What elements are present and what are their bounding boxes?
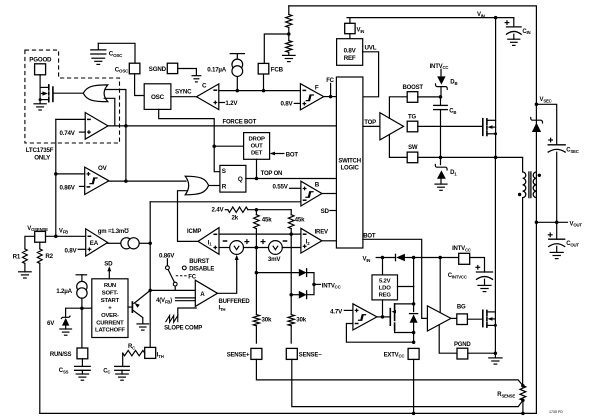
transistor Q1 collector [133,311,142,324]
svg-text:VIN​: VIN​ [357,28,365,34]
wire R2 stem [39,242,41,249]
minus input ICMP [213,233,217,235]
svg-text:6V: 6V [47,320,55,327]
junction comp output [381,315,385,319]
svg-text:UVL: UVL [365,45,377,52]
node VFB [54,235,58,239]
svg-text:REF: REF [344,55,356,62]
polarity minus Vsrc2 [283,240,288,242]
svg-text:SW: SW [408,145,418,151]
svg-text:B: B [315,181,320,188]
wire clamp diode 2b [307,284,314,294]
svg-text:EA: EA [90,240,99,247]
transistor pass PMOS gate bar [389,309,391,326]
wire 0.8V F stub [294,102,300,104]
wire VIN top rail to VSEC [289,6,537,222]
wire INTVCC stub [314,283,321,285]
wire COUT stem [556,222,558,239]
wire top MOSFET source [487,133,496,135]
wire zener branch [66,308,82,317]
wire F output [324,96,337,98]
wire OV output [109,180,186,182]
svg-text:TOP: TOP [364,120,376,126]
diode PMOS body [409,314,418,323]
wire sense minus line [219,233,301,235]
svg-text:OVER-: OVER- [101,313,119,319]
op-amp C (sync comparator) [197,84,219,110]
wire CINTVCC to ground [484,279,486,285]
wire 0.74V stub [80,131,86,133]
wire A input 1 [176,297,196,299]
svg-text:CC​: CC​ [103,368,110,374]
wire VIN rail 2 [347,17,514,19]
svg-text:R2: R2 [45,253,53,260]
junction 0.17uA [236,89,240,93]
wire rail to A amp [150,289,195,291]
wire OR2 bottom input from ICMP [178,191,199,242]
wire SW line [418,156,523,158]
svg-text:IREV: IREV [315,229,328,235]
switch contact 0.86V [166,266,170,270]
wire BOT [363,239,428,318]
capacitor COUT [549,239,565,246]
arrowhead BOT to dropout [270,152,275,156]
wire CIN stem [513,18,515,27]
svg-text:BOT: BOT [286,152,299,158]
svg-text:RUN: RUN [104,283,116,289]
hysteresis glyph 4.7V [358,315,366,321]
wire ITH rail [149,202,151,348]
resistor 45k 2 [288,215,294,229]
wire top MOSFET vertical [495,18,497,158]
wire VIN pin stem [349,18,351,25]
ground D1 [435,184,447,190]
op-amp ICMP comparator [198,228,219,255]
ground CSS [76,374,88,380]
pin PGND [457,348,468,359]
svg-text:0.8V: 0.8V [344,48,357,55]
svg-text:SWITCH: SWITCH [338,159,360,165]
wire zener to ground [65,326,67,329]
dashed FC link [176,275,188,277]
svg-text:0.55V: 0.55V [273,183,289,190]
capacitor CC [115,366,130,370]
node ITH mid [148,289,152,293]
node VOUT cout [555,221,559,225]
svg-text:0.8V: 0.8V [281,101,294,108]
wire bottom MOSFET source [487,324,496,326]
wire COSC cap stem [97,43,99,50]
transistor M1 gate bar [52,87,54,101]
plus CINTVCC [475,265,480,270]
wire VFB sense vertical [55,119,57,236]
source V offset 2 (3mV) [269,241,283,255]
pin SENSE+ [251,348,262,359]
junction 45k1 plus line [255,246,259,250]
plus input IREV [303,244,307,248]
wire VIN pin to REF [349,34,351,39]
svg-text:SLOPE COMP: SLOPE COMP [164,326,202,332]
wire EA out [108,242,121,244]
junction diode clamp 1 [255,271,259,275]
svg-text:LOGIC: LOGIC [341,165,360,171]
svg-text:A: A [200,291,205,298]
svg-text:45k: 45k [295,216,305,223]
latch SR [220,165,246,192]
wire SD arrow stem [108,268,110,278]
node VOUT sec [535,221,539,225]
wire A input 2 [176,300,196,302]
arrowhead buffered ITH [235,255,239,260]
minus input B [303,199,307,201]
svg-text:FORCE BOT: FORCE BOT [223,119,257,125]
op-amp IREV comparator [301,228,322,253]
wire divider to ground [288,52,290,55]
svg-text:BOT: BOT [363,233,376,239]
wire 0.55V stub [290,187,301,189]
svg-text:0.86V: 0.86V [159,253,175,260]
svg-text:VOUT​: VOUT​ [570,221,583,227]
pin EXTVCC [408,348,419,359]
wire sense+ vertical [255,248,257,315]
wire DB to node [440,88,442,97]
wire 45k1 stem [255,210,257,215]
wire PGND to ground [468,352,496,354]
svg-text:R: R [222,183,227,190]
ground SGND [192,76,201,82]
wire SENSE+ run [256,359,523,385]
svg-text:ITH​: ITH​ [157,353,164,359]
polarity minus Vsrc1 [223,240,228,242]
wire 1.2uA down [81,298,83,348]
wire SYNC [171,96,197,98]
arrowhead top MOSFET body [488,125,493,129]
wire diode to INTVCC pin [405,257,458,259]
wire SD stub [330,210,337,212]
minus input UV [87,118,91,120]
capacitor COSC (to ground) [91,50,106,54]
switch contact BURST DISABLE [182,266,186,270]
plus CSEC [548,138,553,143]
ground PGOOD mosfet [34,104,46,110]
ground zener [60,329,72,335]
wire top MOSFET body link [491,126,496,128]
plus input ICMP [213,246,217,250]
plus input 4.7V [355,309,359,313]
node VSEC [535,103,539,107]
plus CIN [505,20,510,25]
pin ITH [145,347,156,358]
wire node to CB [440,97,442,106]
svg-text:30k: 30k [296,316,306,323]
minus input IREV [303,233,307,235]
wire driver low rail to SW [389,135,407,158]
pin BG [457,314,468,325]
svg-text:OUT: OUT [251,144,263,150]
wire top MOSFET drain [487,119,496,121]
wire 0.17uA to comparator line [236,77,238,91]
resistor RC [123,350,145,355]
or-gate latch reset [185,176,208,195]
ground R1 [19,272,32,278]
switch lever [168,270,174,283]
wire SGND to ground [178,69,197,76]
pin FCB [258,63,269,74]
svg-text:3mV: 3mV [268,256,282,263]
svg-text:SYNC: SYNC [175,89,192,96]
svg-text:ITH​: ITH​ [219,306,226,312]
block RUN SOFT-START [92,279,128,338]
resistor 45k 1 [254,215,260,229]
current source 1.2uA [77,281,87,298]
wire COSC top rail [98,43,135,63]
transistor Q1 bar [131,302,133,312]
wire INTVCC to cap [470,258,485,273]
svg-text:SGND: SGND [149,66,167,73]
svg-text:OSC: OSC [151,94,165,101]
wire M1 gate to OR gate [53,92,83,94]
svg-text:CSS​: CSS​ [59,368,69,374]
transistor bottom MOSFET channel [486,311,488,328]
resistor 2k [228,207,248,212]
op-amp A (ITH buffer) [195,280,217,306]
wire LDO output [398,286,414,288]
resistor FCB divider lower [286,41,292,53]
ground CC [116,374,128,380]
arrowhead SD [107,266,111,271]
wire 45k2 bottom [290,229,292,235]
diode clamp D3 lower [299,290,307,299]
svg-text:CSEC​: CSEC​ [566,148,578,154]
plus COUT [548,232,553,237]
junction PMOS drain [412,302,416,306]
wire boost supply [389,97,407,119]
svg-text:5.2V: 5.2V [379,278,391,284]
transistor Q1 base wire [128,306,132,308]
wire COSC pin to OSC [135,74,145,96]
wire bottom MOSFET body link [491,318,496,320]
wire VOUT [536,221,567,223]
svg-text:VSEC​: VSEC​ [540,97,552,103]
wire INTVCC to DB [440,69,442,76]
ground CINTVCC [478,285,491,291]
junction PGND ground [494,351,498,355]
wire VOSENSE left [25,236,35,249]
wire R2 to output bus [39,263,41,413]
block 0.8V REF [337,39,363,66]
junction SW/CB/D1 [439,156,443,160]
wire slope comp to A [178,308,196,316]
junction RSENSE bottom [521,399,525,403]
wire 2.4V stub [225,209,228,211]
minus input F [302,89,306,91]
block DROP OUT DET [244,133,270,160]
wire primary top [522,157,524,172]
svg-text:0.86V: 0.86V [60,185,76,192]
wire dropout to TOP ON [256,159,258,178]
wire BOOST to CB node [418,96,441,98]
svg-text:DB​: DB​ [450,80,457,86]
pin PGOOD [35,64,46,75]
op-amp EA error amplifier [86,229,108,256]
block 5.2V LDO REG [372,275,398,300]
wire primary bottom to RSENSE [522,198,524,386]
source V offset 1 [230,241,244,255]
capacitor CINTVCC [477,272,493,279]
wire EA out 2 [139,242,150,244]
wire VIN to LDO [382,258,384,275]
wire UV minus input [56,118,85,120]
junction EXTVCC comp [412,340,416,344]
junction VIN LDO [381,256,385,260]
wire TOP ON [246,178,337,180]
wire RC to CC [122,353,124,366]
wire RUNSS to CSS [81,359,83,367]
wire R1 to ground [24,263,26,271]
op-amp 4.7V comparator [353,304,377,330]
svg-text:EXTVCC​: EXTVCC​ [384,352,405,358]
wire TG to gate [418,125,483,127]
svg-text:SENSE−: SENSE− [299,352,322,358]
svg-text:OV: OV [98,165,108,172]
junction PMOS source [412,331,416,335]
svg-text:SD: SD [321,208,330,215]
capacitor CSEC [548,145,565,152]
svg-text:1735 FD: 1735 FD [549,410,563,414]
svg-text:30k: 30k [262,316,272,323]
svg-text:2.4V: 2.4V [212,207,225,214]
svg-text:INTVCC​: INTVCC​ [452,246,471,252]
junction 45k2 minus line [289,232,293,236]
wire LDO bottom to comp out [382,300,384,317]
minus input OV [87,186,91,188]
junction bus RSENSE [521,412,525,416]
ground below COSC cap [92,58,105,64]
polarity plus Vsrc2 [261,239,266,244]
diode VIN to INTVCC [396,254,405,262]
wire output bus [40,222,537,413]
wire sense- vertical [290,234,292,315]
wire OR top input [105,90,126,182]
pin RUN/SS [77,348,88,359]
svg-text:CIN​: CIN​ [522,29,530,35]
wire OSC to S input [159,109,220,171]
wire D1 to ground [440,179,442,184]
wire sense plus line c [282,247,301,249]
plus input EA [88,247,92,251]
junction bus EXTVCC [412,412,416,416]
wire 30k1 to SENSE+ [255,326,257,343]
svg-text:TG: TG [408,114,416,120]
hysteresis glyph F [306,95,314,101]
svg-text:R1: R1 [13,254,21,261]
junction FC [329,95,333,99]
transistor M1 source lead [40,99,48,101]
wire 45k1 bottom [255,229,257,248]
wire ITH to B minus [150,201,301,203]
wire 0.86V stub [80,185,85,187]
phase dot primary [518,193,521,196]
wire comp minus sense [346,324,413,343]
diode secondary schottky [531,117,543,132]
svg-text:1.2µA: 1.2µA [56,288,72,295]
plus input OV [87,172,91,176]
svg-text:LATCHOFF: LATCHOFF [95,328,125,334]
wire to DROP OUT DET [214,145,243,147]
resistor 30k 2 [288,315,294,326]
pin SGND [167,63,177,73]
wire comp out to gate [377,316,390,318]
junction dropout tap [212,144,216,148]
svg-text:BOOST: BOOST [403,85,424,91]
svg-text:45k: 45k [262,216,272,223]
node VIN [494,16,498,20]
wire OR bottom input [104,98,115,126]
wire CC stem [121,370,123,374]
junction VFB to OV [54,172,58,176]
transformer core [529,172,531,198]
svg-text:SENSE+: SENSE+ [227,352,250,358]
junction dropout bottom [255,177,259,181]
pin VOSENSE [35,231,46,242]
inductor transformer secondary [533,172,536,198]
wire B output [322,193,337,195]
wire BG apex to pin [451,317,457,319]
wire IREV output [322,240,337,242]
ground FCB divider [283,55,296,61]
resistor R1 [23,249,28,264]
transistor pass PMOS channel [394,304,396,330]
svg-text:VFB​: VFB​ [59,228,68,234]
hysteresis glyph OV [89,178,97,184]
wire D1 stem [440,157,442,164]
svg-text:PGOOD: PGOOD [29,57,52,64]
wire bottom MOSFET vertical [494,157,496,353]
svg-text:D1​: D1​ [450,170,457,176]
svg-text:ONLY: ONLY [34,155,51,162]
minus input EA [88,235,92,237]
wire FCB pin down [263,74,265,91]
wire node to RUN box [82,307,92,309]
svg-text:C: C [202,83,207,90]
wire FORCE BOT [108,125,336,127]
svg-text:DET: DET [251,151,263,157]
wire bottom MOSFET drain [487,311,496,313]
inductor transformer primary [523,172,526,198]
svg-text:4.7V: 4.7V [330,309,343,316]
transistor M1 body arrow [42,91,48,95]
wire PMOS drain [395,303,414,305]
junction FCB divider [287,32,291,36]
driver TOP (TG) [380,113,404,140]
wire 2k to 45k top [248,209,291,211]
switch pole contact [173,282,177,286]
ground PGND [489,358,502,364]
wire 30k2 to SENSE- [290,326,292,343]
capacitor CSS [75,366,91,370]
diode clamp D2 upper [299,268,307,277]
svg-text:VIN​: VIN​ [363,256,371,262]
wire FC stub [330,84,332,97]
node clamp INTVCC [312,283,316,287]
svg-text:S: S [222,168,226,175]
pin VIN [345,23,355,33]
op-amp F comparator (FCB) [300,84,323,110]
svg-text:CURRENT: CURRENT [96,320,124,326]
junction SW source [494,156,498,160]
junction RUN/SS node [80,306,84,310]
op-amp UV comparator (0.74V) [85,113,108,140]
